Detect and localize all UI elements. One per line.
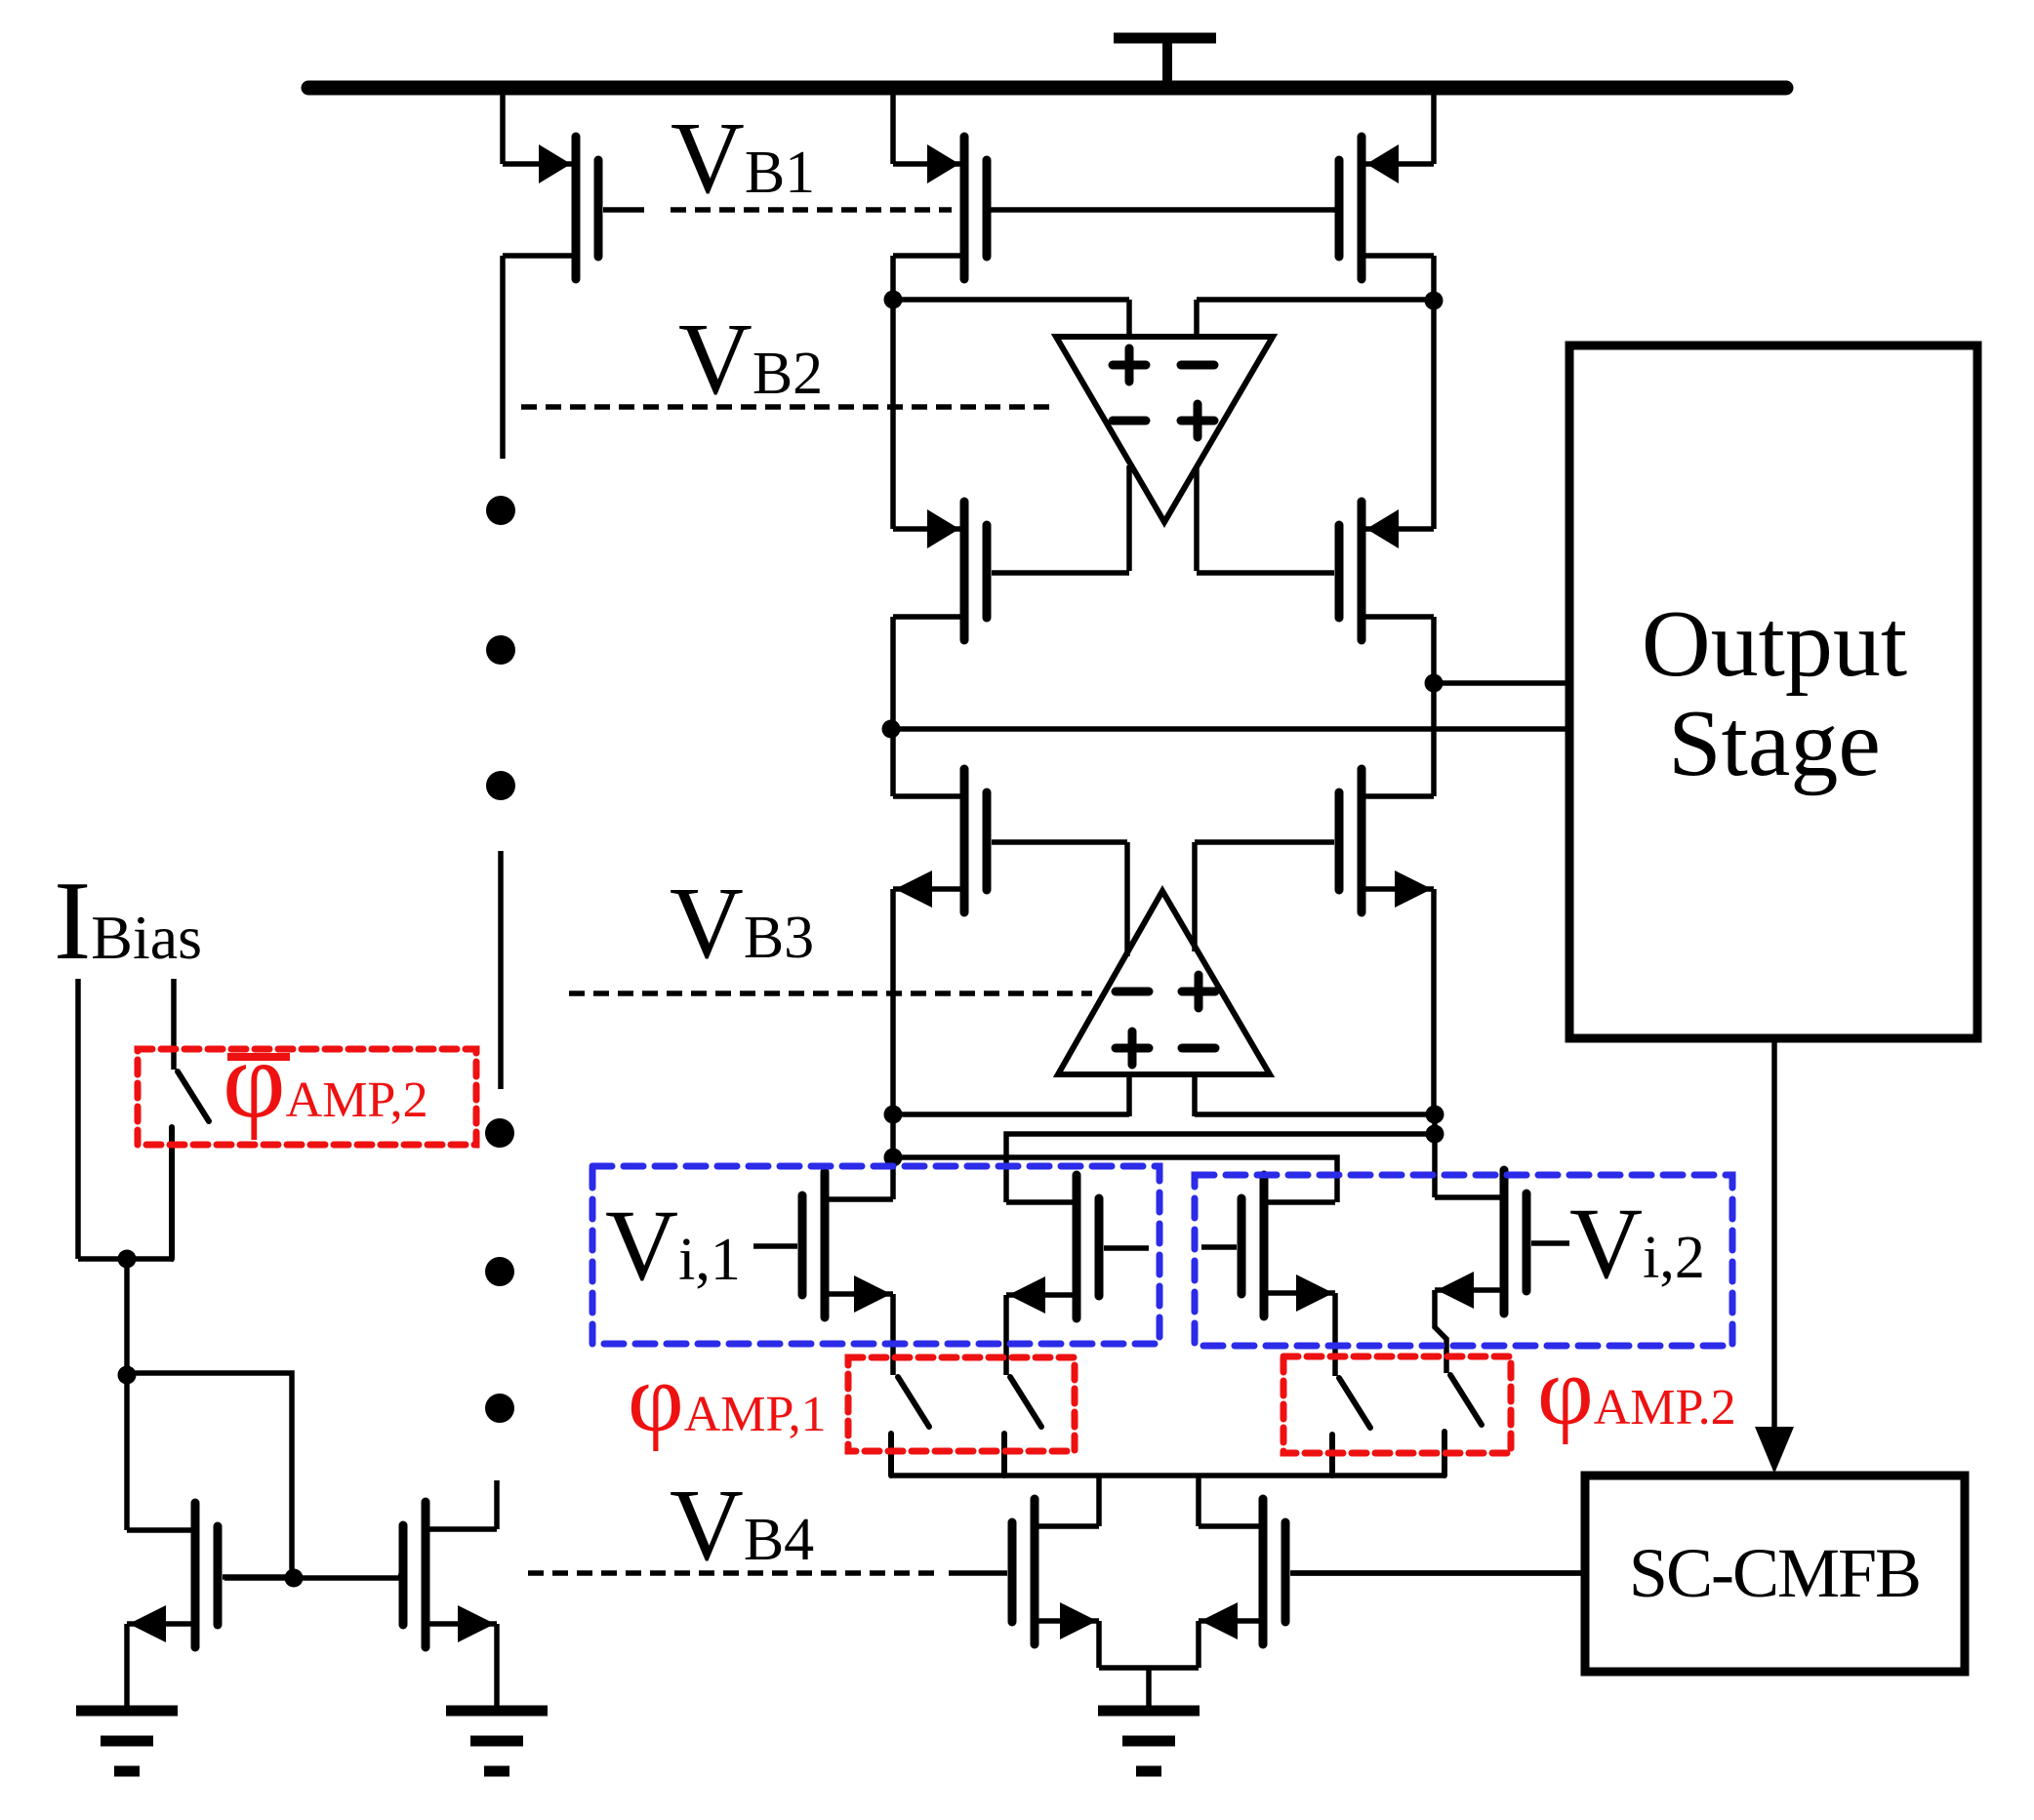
- node right output junction: [1425, 674, 1444, 693]
- svg-text:IBias: IBias: [54, 859, 202, 983]
- wire: [1431, 301, 1437, 529]
- wire amp U2 right output: [1192, 842, 1198, 951]
- wire SC-CMFB to VB4 gates: [1291, 1570, 1585, 1576]
- svg-text:VB3: VB3: [670, 866, 814, 980]
- switch S5 (phi-bar AMP,2 bias switch): [172, 1072, 209, 1259]
- switch S1 (phi AMP,1): [891, 1377, 929, 1476]
- wire: [1003, 1295, 1009, 1375]
- wire lower cross-coupling rail: [893, 1157, 1337, 1202]
- transistor MP4 (PMOS cascode right): [1197, 502, 1434, 640]
- wire VB3 dashed bias line: [569, 991, 1092, 996]
- transistor MN6 (NMOS input, Vi,2, right): [1435, 1170, 1569, 1314]
- VDD power rail: [308, 81, 1786, 96]
- wire: [1196, 1476, 1201, 1526]
- group box input pair Vi,2 (blue dashed): [1195, 1175, 1732, 1346]
- wire: [494, 1624, 500, 1708]
- transistor MP2 (PMOS VB1 right of cascode pair): [1334, 137, 1434, 279]
- transistor MN10 (NMOS bias mirror output): [398, 1502, 497, 1647]
- wire: [124, 1375, 130, 1530]
- wire left amp-output node: [893, 1112, 1129, 1117]
- wire: [890, 1294, 896, 1375]
- wire right amp-output node: [1195, 1112, 1435, 1117]
- wire: [1096, 1476, 1102, 1526]
- node left output junction: [882, 720, 901, 739]
- wire amp U2 left output: [1124, 842, 1130, 956]
- group box input pair Vi,1 (blue dashed): [592, 1166, 1159, 1344]
- wire upper cross-coupling rail: [1006, 1134, 1435, 1202]
- svg-text:Stage: Stage: [1668, 691, 1881, 796]
- wire: [890, 729, 896, 796]
- node: [884, 1106, 903, 1124]
- wire: [1431, 256, 1437, 301]
- node left cascode drain junction: [884, 291, 903, 309]
- switch S2 (phi AMP,1): [1004, 1377, 1041, 1476]
- op-amp U1 (VB2 gain-boost amplifier): [1056, 337, 1273, 522]
- label phi-bar AMP,2: [223, 1020, 428, 1141]
- svg-text:Vi,2: Vi,2: [1569, 1188, 1705, 1300]
- wire left output to Output Stage: [891, 726, 1569, 732]
- wire: [124, 1624, 130, 1708]
- node ellipsis dots (bias chain continuation lower): [485, 1118, 514, 1423]
- svg-text:VB4: VB4: [670, 1468, 814, 1582]
- block Output Stage: [1569, 345, 1977, 1038]
- wire tail source join: [1099, 1665, 1199, 1671]
- VDD symbol: [1114, 38, 1216, 82]
- wire right output to Output Stage: [1434, 680, 1569, 686]
- svg-text:Output: Output: [1642, 591, 1907, 697]
- wire: [890, 300, 896, 529]
- ground (bias mirror left): [76, 1711, 178, 1771]
- wire: [500, 88, 506, 164]
- wire: [1435, 1290, 1446, 1373]
- wire: [78, 1256, 174, 1262]
- node: [884, 1149, 903, 1167]
- group box phi AMP,1 switches (red dashed): [848, 1357, 1075, 1451]
- node ellipsis dots (bias chain continuation upper): [486, 496, 515, 800]
- block SC-CMFB: [1585, 1476, 1965, 1672]
- transistor MN3 (NMOS input, Vi,1, left): [753, 1172, 893, 1317]
- wire: [890, 617, 896, 729]
- ground (tail): [1098, 1711, 1200, 1771]
- wire VB2 dashed bias line: [521, 404, 1052, 410]
- wire: [890, 88, 896, 164]
- arrowhead into SC-CMFB: [1755, 1427, 1794, 1474]
- wire amp U1 left output: [1126, 465, 1132, 571]
- transistor MP0 (PMOS current source, VB1, left bias column): [503, 137, 644, 279]
- ground (bias mirror right): [446, 1711, 548, 1771]
- wire amp U1 + input stub: [1126, 300, 1132, 340]
- svg-text:φAMP,2: φAMP,2: [223, 1020, 428, 1141]
- transistor MP3 (PMOS cascode left): [893, 502, 1129, 640]
- wire amp U2 - input stub: [1192, 1074, 1198, 1116]
- node: [285, 1569, 304, 1588]
- svg-text:SC-CMFB: SC-CMFB: [1629, 1534, 1920, 1612]
- svg-text:φAMP,1: φAMP,1: [628, 1344, 827, 1452]
- wire amp U1 - input stub: [1194, 300, 1200, 340]
- wire mirror gate feed: [127, 1373, 292, 1578]
- svg-text:VB2: VB2: [678, 302, 823, 416]
- switch S4 (phi AMP,2): [1444, 1375, 1482, 1476]
- svg-text:φAMP.2: φAMP.2: [1537, 1337, 1736, 1445]
- wire: [498, 851, 504, 1089]
- wire: [500, 256, 506, 459]
- wire: [1196, 1621, 1201, 1668]
- transistor MN4 (NMOS input, cross-coupled left pair): [1006, 1175, 1149, 1318]
- wire: [1431, 88, 1437, 164]
- wire: [890, 256, 896, 300]
- group box phi AMP,2 switches (red dashed): [1283, 1356, 1511, 1453]
- transistor MN7 (NMOS tail VB4 left): [949, 1499, 1099, 1644]
- transistor MN1 (NMOS cascode left): [893, 769, 1127, 912]
- wire: [494, 1480, 500, 1529]
- node right cascode drain junction: [1425, 292, 1444, 310]
- wire: [1431, 683, 1437, 796]
- svg-text:Vi,1: Vi,1: [605, 1190, 741, 1302]
- wire IBias right branch (switch top): [171, 979, 177, 1070]
- wire: [1332, 1293, 1338, 1376]
- wire amp U2 + input stub: [1126, 1074, 1132, 1116]
- transistor MN8 (NMOS tail VB4 right): [1199, 1499, 1585, 1644]
- transistor MN5 (NMOS input, cross-coupled right pair): [1201, 1175, 1335, 1316]
- wire: [1431, 617, 1437, 683]
- wire: [890, 1114, 896, 1199]
- wire IBias left branch: [75, 979, 81, 1259]
- wire: [890, 889, 896, 1114]
- svg-text:VB1: VB1: [671, 101, 815, 215]
- transistor MN2 (NMOS cascode right): [1195, 769, 1434, 912]
- wire VB1 gate link: [992, 207, 1340, 213]
- wire VB1 dashed bias line: [671, 207, 952, 213]
- node: [118, 1250, 137, 1269]
- wire: [124, 1259, 130, 1375]
- wire: [1096, 1621, 1102, 1668]
- node: [1426, 1125, 1444, 1144]
- node: [118, 1366, 137, 1385]
- wire amp U1 right output: [1194, 466, 1200, 571]
- op-amp U2 (VB3 gain-boost amplifier): [1058, 891, 1270, 1074]
- wire tail bus: [891, 1473, 1445, 1478]
- wire VB4 dashed bias line: [528, 1570, 935, 1576]
- switch S3 (phi AMP,2): [1332, 1378, 1370, 1476]
- transistor MN9 (NMOS bias mirror diode-connected): [127, 1503, 294, 1647]
- wire: [1197, 297, 1434, 303]
- wire Output Stage to SC-CMFB: [1771, 1038, 1777, 1431]
- wire: [1432, 1114, 1438, 1197]
- wire mirror gate link: [224, 1575, 400, 1581]
- wire: [893, 297, 1129, 303]
- wire: [1146, 1668, 1152, 1709]
- group box phi-bar AMP,2 (red dashed, bias switch): [138, 1049, 476, 1145]
- wire: [1431, 889, 1437, 1114]
- transistor MP1 (PMOS VB1 left of cascode pair): [893, 137, 992, 279]
- node: [1426, 1106, 1444, 1124]
